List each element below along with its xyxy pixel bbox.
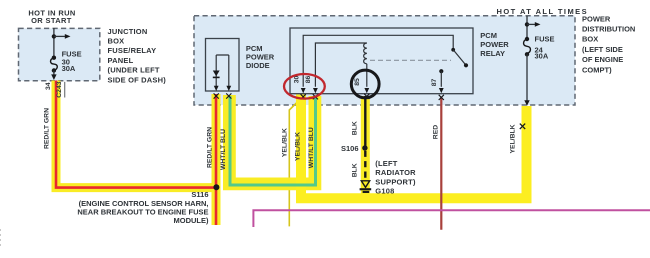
svg-text:34: 34 xyxy=(45,82,52,90)
wire RED/LT GRN highlight diode to bottom xyxy=(212,94,221,225)
svg-text:YEL/BLK: YEL/BLK xyxy=(282,128,289,157)
svg-text:OF ENGINE: OF ENGINE xyxy=(582,55,623,64)
svg-text:RED/LT GRN: RED/LT GRN xyxy=(44,108,51,149)
wire BLK core S106 to G108 (dashed) xyxy=(364,151,366,180)
svg-text:BOX: BOX xyxy=(108,37,125,46)
diode pin exit arrows xyxy=(214,86,219,91)
wire BLK core pin85 to S106 xyxy=(364,96,366,148)
fuse F24 symbol xyxy=(525,37,529,41)
wire BLK highlight pin85 to ground G108 xyxy=(361,96,370,194)
svg-text:87: 87 xyxy=(431,79,438,87)
power distribution box xyxy=(194,16,575,105)
wire YEL/BLK highlight fuse24 to relay pin30 xyxy=(301,95,527,199)
relay switch pivot xyxy=(451,48,455,52)
svg-text:86: 86 xyxy=(305,76,312,84)
svg-text:MODULE): MODULE) xyxy=(174,216,209,225)
svg-text:G108: G108 xyxy=(375,187,394,196)
relay mechanical link (dashed) xyxy=(370,59,451,61)
annotation: red ellipse around pins 30 86 xyxy=(284,74,325,99)
wire YEL/BLK thin from relay pin30 down xyxy=(289,97,302,226)
relay coil L1 xyxy=(364,43,367,64)
faint page-edge artifact xyxy=(0,229,2,249)
svg-text:S106: S106 xyxy=(341,144,359,153)
fuse24 exit arrow at box bottom xyxy=(524,100,529,106)
svg-text:POWER: POWER xyxy=(582,14,611,23)
wire RED/LT GRN highlight from fuse30 to S116 xyxy=(56,81,216,188)
crossing X on YEL/BLK wire below fuse24 xyxy=(520,124,525,129)
svg-text:(UNDER LEFT: (UNDER LEFT xyxy=(108,66,160,75)
svg-text:COMPT): COMPT) xyxy=(582,65,612,74)
annotation: black circle around pin 85 xyxy=(351,70,379,98)
svg-text:RED/LT GRN: RED/LT GRN xyxy=(206,127,213,168)
svg-text:OR START: OR START xyxy=(31,16,72,25)
diode D1 symbol xyxy=(213,71,220,77)
node: fuse30 top junction xyxy=(52,34,56,38)
svg-text:PCM: PCM xyxy=(480,31,497,40)
svg-text:POWER: POWER xyxy=(480,40,509,49)
splice node S116 xyxy=(213,184,219,190)
svg-text:SUPPORT): SUPPORT) xyxy=(375,177,416,186)
svg-text:FUSE: FUSE xyxy=(535,35,555,44)
fuse30 exit arrow at box edge xyxy=(53,71,55,75)
PCM power diode box xyxy=(206,39,240,92)
svg-text:YEL/BLK: YEL/BLK xyxy=(294,132,301,161)
relay switch blade xyxy=(453,50,466,66)
wire WHT/LT BLU core diode to relay pin 86 xyxy=(230,96,316,185)
wire RED from relay pin87 down xyxy=(440,97,442,230)
svg-text:PANEL: PANEL xyxy=(108,56,134,65)
relay pin86 line to coil xyxy=(315,43,366,87)
relay pin85 line from coil xyxy=(366,64,368,87)
relay pin87 contact xyxy=(439,69,443,73)
svg-text:85: 85 xyxy=(354,78,361,86)
svg-text:WHT/LT BLU: WHT/LT BLU xyxy=(308,127,315,168)
fuse F30 symbol xyxy=(52,56,56,60)
svg-text:(LEFT SIDE: (LEFT SIDE xyxy=(582,45,623,54)
svg-text:30A: 30A xyxy=(62,64,76,73)
junction box (fuse/relay panel) xyxy=(19,28,100,80)
svg-text:C243: C243 xyxy=(56,81,63,97)
svg-text:S116: S116 xyxy=(191,190,208,199)
svg-text:WHT/LT BLU: WHT/LT BLU xyxy=(220,129,227,170)
svg-text:30A: 30A xyxy=(535,52,549,61)
diode internal legs xyxy=(216,55,229,87)
PCM power relay box xyxy=(290,28,473,94)
splice node S106 xyxy=(362,145,367,150)
relay pin30 line and top rail xyxy=(303,35,453,87)
crossing X marks under diode box xyxy=(214,93,219,98)
relay pin exit arrows 30 86 85 87 xyxy=(301,88,306,93)
arrow to other circuits from fuse30 xyxy=(54,35,65,37)
svg-text:RADIATOR: RADIATOR xyxy=(375,168,416,177)
wire RED/LT GRN core diode leg down xyxy=(215,94,218,225)
svg-text:DISTRIBUTION: DISTRIBUTION xyxy=(582,25,635,34)
svg-text:BLK: BLK xyxy=(352,163,359,177)
svg-text:FUSE/RELAY: FUSE/RELAY xyxy=(108,46,157,55)
wire WHT/LT BLU highlight diode to relay pin 86 xyxy=(229,95,315,184)
svg-text:SIDE OF DASH): SIDE OF DASH) xyxy=(108,75,167,84)
crossing X marks under relay pins xyxy=(301,94,306,99)
arrow to other circuits from fuse24 xyxy=(527,23,535,25)
svg-text:(LEFT: (LEFT xyxy=(375,159,397,168)
svg-text:HOT AT ALL TIMES: HOT AT ALL TIMES xyxy=(497,7,589,16)
fuse 30 feed line xyxy=(53,28,55,57)
fuse24 drop line xyxy=(526,54,528,100)
wire PNK bottom xyxy=(253,210,650,227)
ground G108 symbol xyxy=(361,181,369,188)
svg-text:RED: RED xyxy=(432,125,439,139)
svg-text:DIODE: DIODE xyxy=(246,61,270,70)
svg-text:YEL/BLK: YEL/BLK xyxy=(510,124,517,153)
fuse 24 feed line xyxy=(526,16,528,39)
svg-text:RELAY: RELAY xyxy=(480,49,505,58)
wire RED/LT GRN core fuse30 to S116 xyxy=(56,81,216,188)
node: fuse24 top junction xyxy=(525,22,529,26)
svg-text:BOX: BOX xyxy=(582,35,598,44)
svg-text:JUNCTION: JUNCTION xyxy=(108,27,148,36)
svg-text:BLK: BLK xyxy=(352,121,359,135)
